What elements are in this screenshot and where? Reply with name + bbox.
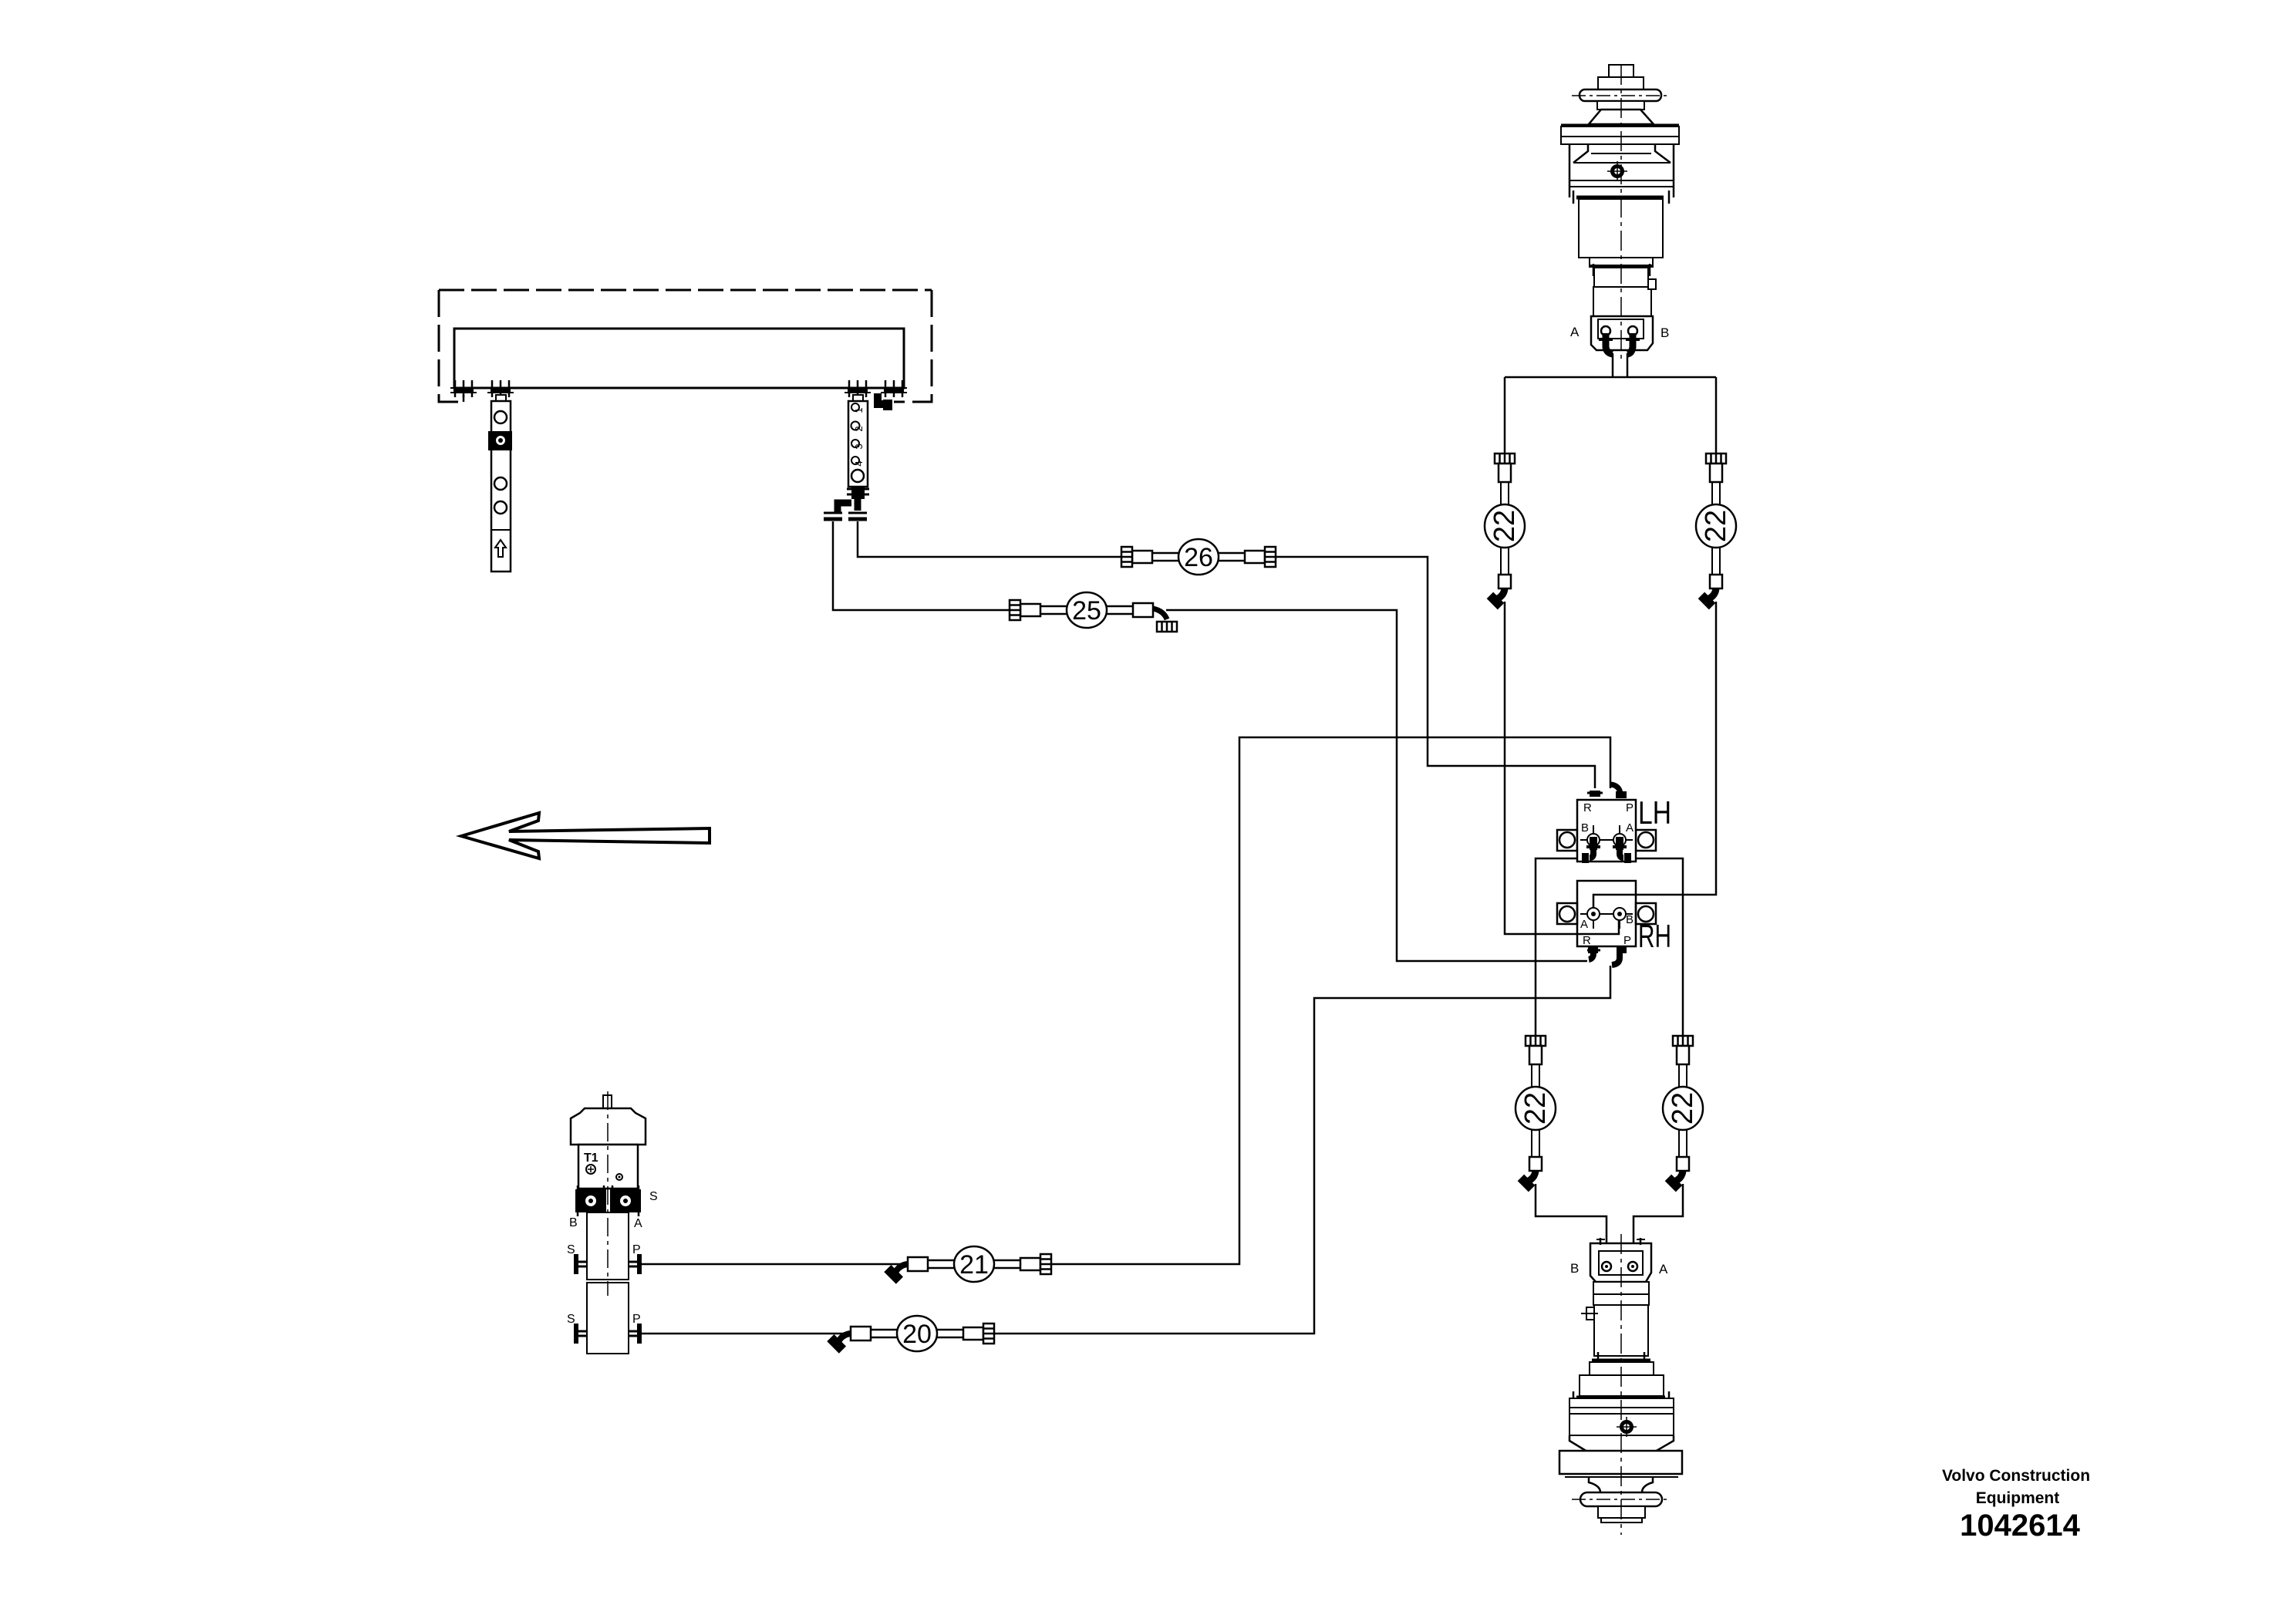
- wire: right drop to hose 22 UR: [1715, 377, 1718, 454]
- svg-text:25: 25: [1072, 596, 1101, 626]
- bottom auger drive motor: [1559, 1234, 1682, 1535]
- port S lower: [574, 1324, 587, 1344]
- valve block RH: [1557, 881, 1656, 965]
- pump port block A: [610, 1189, 641, 1212]
- direction arrow: [461, 813, 710, 858]
- small port dot: [616, 1174, 622, 1180]
- screed frame dashed enclosure: [439, 289, 932, 292]
- wire: hose 21 to valve LH port P: [1043, 737, 1610, 1264]
- hose 20: [827, 1316, 994, 1354]
- port P upper: [629, 1254, 642, 1274]
- wire: hose 22 UL to valve RH port B: [1505, 602, 1619, 934]
- pump port block B: [575, 1189, 606, 1212]
- wire: left drop to hose 22 UL: [1504, 377, 1506, 454]
- svg-text:22: 22: [1489, 510, 1521, 542]
- pump drive shaft: [603, 1095, 612, 1108]
- wire: pump port P upper to hose 21: [641, 1263, 911, 1266]
- svg-text:A: A: [1580, 918, 1588, 931]
- pump section divider: [587, 1282, 629, 1283]
- svg-text:LH: LH: [1638, 794, 1671, 831]
- hose 26: [1121, 539, 1276, 575]
- top auger drive motor: [1561, 65, 1679, 363]
- port P lower: [629, 1324, 642, 1344]
- hose 22 lower right: [1663, 1036, 1703, 1192]
- svg-text:1: 1: [853, 407, 865, 413]
- wire: top motor port B to manifold: [1627, 353, 1629, 377]
- tee fitting under bar: [851, 487, 865, 499]
- svg-text:P: P: [1623, 934, 1631, 947]
- svg-text:A: A: [634, 1217, 642, 1230]
- svg-text:B: B: [1570, 1261, 1579, 1276]
- svg-text:3: 3: [853, 443, 865, 449]
- valve block LH: [1557, 784, 1656, 863]
- svg-text:1042614: 1042614: [1960, 1509, 2080, 1543]
- hose 25: [1010, 592, 1177, 632]
- port S upper: [574, 1254, 587, 1274]
- pump centreline: [607, 1091, 609, 1296]
- beam mounting flange 2: [487, 380, 514, 397]
- svg-text:A: A: [1570, 325, 1580, 339]
- wire: top motor port A to manifold: [1612, 353, 1614, 377]
- svg-text:4: 4: [853, 460, 865, 466]
- screed beam: [454, 329, 904, 388]
- wire: distribution bar port 2 to hose 26: [858, 521, 1124, 557]
- left edge bracket stub: [463, 395, 465, 402]
- svg-text:P: P: [1626, 801, 1633, 814]
- svg-text:26: 26: [1184, 543, 1213, 572]
- wire: valve LH port B to hose 22 LL: [1536, 858, 1587, 1036]
- right distribution bar with ports 1-4: [848, 395, 868, 487]
- wire: hose 22 LL to bottom motor port B: [1536, 1184, 1607, 1263]
- flange fitting left: [824, 513, 842, 519]
- beam mounting flange 3: [845, 380, 871, 397]
- svg-text:B: B: [1626, 913, 1633, 926]
- svg-text:2: 2: [853, 426, 865, 431]
- svg-text:S: S: [649, 1190, 658, 1203]
- wire: distribution bar port 1 to hose 25: [833, 521, 1012, 610]
- hose 22 upper right: [1696, 454, 1736, 609]
- pump section 2: [587, 1283, 629, 1354]
- svg-text:B: B: [1581, 821, 1589, 835]
- left distribution bar: [488, 395, 512, 572]
- svg-text:22: 22: [1667, 1092, 1699, 1125]
- hose 21: [884, 1246, 1051, 1284]
- svg-text:20: 20: [902, 1320, 932, 1349]
- svg-text:A: A: [1659, 1262, 1668, 1276]
- hose 22 upper left: [1485, 454, 1525, 609]
- pump section 1: [587, 1212, 629, 1280]
- wire: hose 22 UR to valve RH port A: [1593, 602, 1716, 912]
- hose 22 lower left: [1515, 1036, 1556, 1192]
- svg-text:Equipment: Equipment: [1976, 1489, 2060, 1507]
- svg-text:B: B: [1660, 325, 1669, 340]
- svg-text:A: A: [1626, 821, 1633, 835]
- pump upper body: [578, 1145, 638, 1189]
- wire: hose 26 to valve LH port R: [1273, 557, 1595, 788]
- svg-text:R: R: [1583, 801, 1592, 814]
- svg-text:B: B: [569, 1216, 578, 1229]
- elbow to port 1 line: [838, 503, 851, 514]
- svg-text:22: 22: [1700, 510, 1732, 542]
- beam mounting flange 4: [881, 380, 907, 397]
- svg-text:T1: T1: [584, 1152, 598, 1165]
- elbow fitting at beam right: [878, 393, 888, 404]
- wire: hose 25 to valve RH port R: [1166, 610, 1587, 961]
- pump motor housing: [571, 1108, 646, 1145]
- svg-text:R: R: [1583, 934, 1591, 947]
- svg-text:Volvo Construction: Volvo Construction: [1942, 1467, 2090, 1485]
- wire: hose 20 to valve RH port P: [986, 966, 1610, 1334]
- svg-text:21: 21: [959, 1250, 989, 1280]
- svg-text:RH: RH: [1638, 918, 1671, 954]
- wire: top manifold horizontal: [1505, 376, 1716, 379]
- T1 port symbol: [586, 1165, 595, 1174]
- flange fitting right: [848, 513, 867, 519]
- svg-text:22: 22: [1519, 1092, 1552, 1125]
- beam mounting flange 1: [450, 380, 477, 397]
- wire: hose 22 LR to bottom motor port A: [1633, 1184, 1683, 1263]
- wire: valve LH port A to hose 22 LR: [1626, 858, 1683, 1036]
- wire: pump port P lower to hose 20: [641, 1333, 854, 1335]
